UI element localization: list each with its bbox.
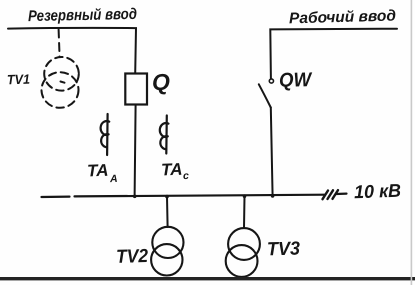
bus 10 kV [42, 196, 70, 199]
transformer TV2 [151, 227, 183, 276]
scan artifact: faint right edge line [411, 0, 413, 285]
wire: bus to TV2 [166, 197, 169, 227]
bus continuation hatch marks [323, 190, 339, 199]
wire: bus to TV3 [243, 197, 246, 229]
transformer TV3 [226, 228, 260, 277]
breaker Q (rectangle) [125, 74, 147, 105]
svg-text:TA: TA [161, 160, 183, 180]
wire: dashed tap to TV1 [59, 30, 60, 58]
wire: working feeder horizontal + drop to disconnector QW [270, 29, 397, 79]
junction node: TV2 stub on bus [165, 195, 169, 199]
junction node: Q column on bus [133, 195, 137, 199]
svg-text:Резервный ввод: Резервный ввод [28, 6, 138, 25]
transformer TV1 (dashed, future) [42, 57, 79, 108]
svg-text:QW: QW [279, 69, 313, 92]
wire: Q to bus [135, 105, 136, 197]
wire: QW to bus [271, 108, 273, 197]
current transformer TA_A [101, 114, 110, 155]
disconnector QW: blade [259, 84, 271, 107]
svg-text:TV3: TV3 [267, 239, 301, 261]
disconnector QW: hinge circle [269, 79, 273, 83]
svg-text:TV1: TV1 [7, 72, 31, 88]
svg-text:A: A [109, 173, 118, 185]
svg-text:c: c [183, 170, 189, 182]
svg-text:TA: TA [87, 161, 109, 181]
junction node: QW column on bus [271, 194, 275, 198]
svg-text:TV2: TV2 [116, 246, 149, 268]
scan artifact: bottom dark bar [0, 277, 415, 280]
wire: reserve feeder horizontal + drop to breaker Q [8, 28, 136, 74]
svg-text:Рабочий ввод: Рабочий ввод [289, 8, 397, 28]
svg-text:10 кВ: 10 кВ [354, 180, 402, 203]
current transformer TA_c [160, 116, 169, 154]
svg-text:Q: Q [152, 69, 170, 95]
junction node: TV3 stub on bus [243, 194, 247, 198]
